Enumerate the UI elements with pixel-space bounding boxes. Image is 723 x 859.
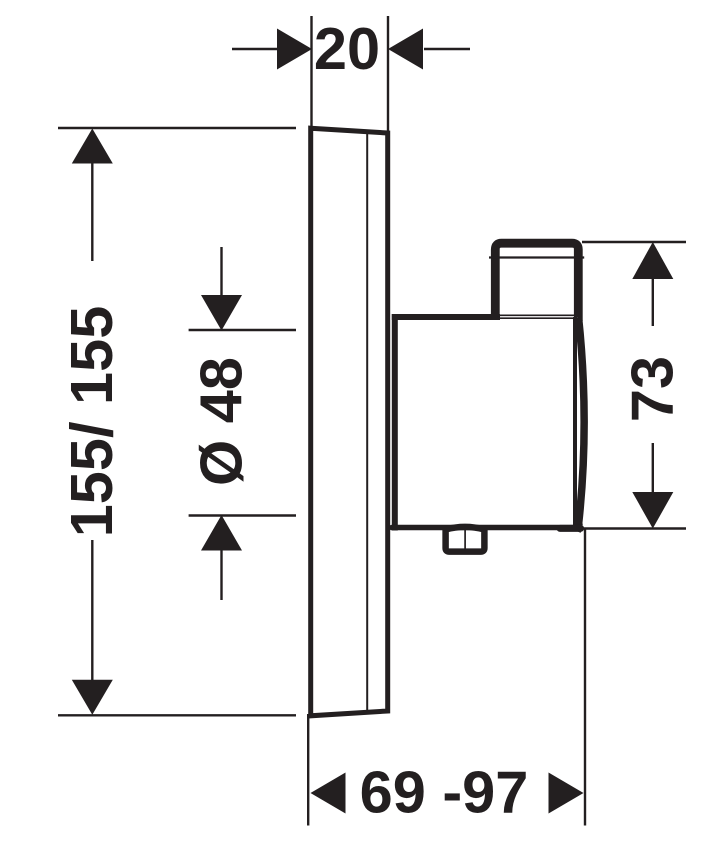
svg-text:Ø 48: Ø 48 [188, 357, 255, 486]
svg-text:155/ 155: 155/ 155 [58, 306, 125, 538]
svg-text:20: 20 [314, 15, 380, 82]
svg-text:69 -97: 69 -97 [360, 759, 529, 826]
svg-text:73: 73 [619, 356, 686, 422]
